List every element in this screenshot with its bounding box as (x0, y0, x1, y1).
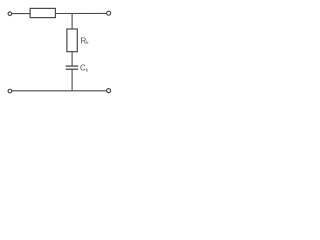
terminal top-left (8, 12, 12, 16)
resistor Rk (67, 29, 77, 52)
svg-text:Ck: Ck (80, 64, 89, 73)
terminal bottom-right (107, 89, 111, 93)
wire Rk to Ck (71, 52, 73, 66)
terminal top-right (107, 11, 111, 15)
capacitor Ck (66, 66, 79, 69)
wire Ck to bottom rail (71, 69, 73, 91)
svg-text:Rk: Rk (81, 37, 90, 46)
wire junction to Rk (71, 14, 73, 29)
wire top-left (12, 13, 30, 15)
resistor R1 (30, 8, 55, 17)
terminal bottom-left (8, 89, 12, 93)
wire top-right (55, 12, 106, 14)
wire bottom rail (12, 90, 107, 92)
